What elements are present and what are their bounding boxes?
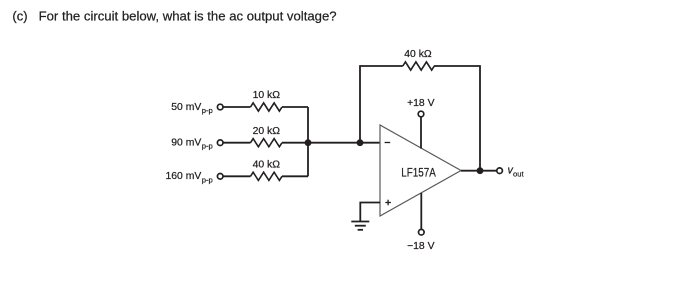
label 160 mVp-p <box>165 171 212 184</box>
wire terminal2 to R2 <box>223 142 250 144</box>
svg-text:LF157A: LF157A <box>401 167 436 179</box>
resistor R2 20 kOhm <box>251 139 283 147</box>
wire input bus vertical <box>307 107 309 176</box>
junction node summing <box>357 139 364 146</box>
svg-text:p-p: p-p <box>202 175 213 184</box>
+18 V supply terminal <box>418 111 424 117</box>
wire R2 to summing node <box>282 142 380 144</box>
wire op-amp output <box>461 170 497 172</box>
svg-text:20 kΩ: 20 kΩ <box>253 126 281 137</box>
junction node bus <box>305 139 312 146</box>
output terminal <box>497 168 503 174</box>
svg-text:160 mV: 160 mV <box>165 171 201 182</box>
resistor R1 10 kOhm <box>251 103 283 111</box>
svg-text:p-p: p-p <box>202 142 213 151</box>
wire feedback right down to output <box>434 66 480 171</box>
wire -18V lead <box>420 193 422 229</box>
svg-text:(c): (c) <box>12 8 27 23</box>
wire R3 to bus <box>282 175 308 177</box>
svg-text:40 kΩ: 40 kΩ <box>404 49 432 60</box>
svg-text:+18 V: +18 V <box>407 98 435 109</box>
input terminal 1 (50 mV) <box>217 104 223 110</box>
svg-text:10 kΩ: 10 kΩ <box>253 90 281 101</box>
resistor Rf 40 kOhm feedback <box>403 62 435 70</box>
wire feedback loop <box>360 66 403 143</box>
svg-text:90 mV: 90 mV <box>171 138 201 149</box>
wire terminal3 to R3 <box>223 175 250 177</box>
resistor R3 40 kOhm input <box>251 172 283 180</box>
op-amp U1 triangle <box>380 125 461 216</box>
svg-text:For the circuit below, what is: For the circuit below, what is the ac ou… <box>39 8 337 23</box>
svg-text:out: out <box>513 170 524 179</box>
label vout <box>508 164 525 178</box>
label 50 mVp-p <box>171 102 213 115</box>
junction node output/feedback <box>477 167 484 174</box>
svg-text:40 kΩ: 40 kΩ <box>253 160 281 171</box>
svg-text:p-p: p-p <box>202 106 213 115</box>
wire +18V lead <box>420 117 422 148</box>
op-amp plus input symbol <box>385 200 391 206</box>
wire plus input to ground <box>360 203 380 222</box>
label 90 mVp-p <box>171 138 213 151</box>
wire terminal1 to R1 <box>223 106 250 108</box>
ground symbol <box>351 222 369 230</box>
wire R1 to bus <box>282 106 308 108</box>
-18 V supply terminal <box>419 229 425 235</box>
svg-text:−18 V: −18 V <box>407 241 435 252</box>
title question text <box>12 8 336 23</box>
op-amp minus input symbol <box>385 142 391 144</box>
svg-text:50 mV: 50 mV <box>171 102 201 113</box>
input terminal 3 (160 mV) <box>217 174 223 180</box>
input terminal 2 (90 mV) <box>217 140 223 146</box>
